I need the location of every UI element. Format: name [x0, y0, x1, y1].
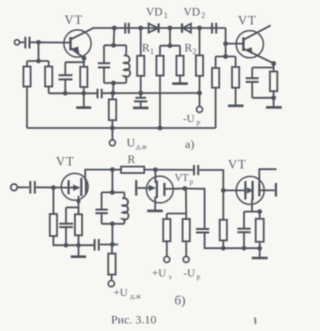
capacitor VTp source bypass: [196, 229, 260, 248]
label VT (VT2): [238, 14, 257, 28]
wire bottom bus Udzh (circuit a): [27, 127, 216, 129]
diode VD1: [149, 23, 159, 32]
terminal bar output (b, right): [275, 183, 277, 197]
terminal +Uz: [164, 256, 170, 262]
coupling capacitor input (circuit b): [30, 181, 35, 194]
ground (under VD divider): [172, 82, 188, 85]
terminal -Up (circuit a): [197, 93, 203, 112]
wire source VTp bypass branch: [185, 189, 205, 229]
label +Udzh: [114, 287, 142, 301]
node base divider tap (circuit a): [27, 40, 49, 63]
label a): [185, 137, 194, 151]
svg-text:2: 2: [193, 47, 197, 56]
wire top rail to gate VT right (circuit b): [199, 170, 223, 190]
capacitor emitter bypass (circuit a): [59, 75, 73, 93]
label +Uz: [152, 268, 172, 282]
svg-text:р: р: [197, 118, 201, 127]
capacitor series top rail 2 (circuit a): [212, 23, 216, 34]
wire drain VT left to top rail (circuit b): [85, 170, 121, 181]
label VT (b, left): [56, 155, 75, 169]
wire emitter branch (circuit a): [65, 58, 84, 75]
diode VD2: [182, 23, 191, 32]
transistor VT field-effect right (circuit b): [223, 176, 274, 204]
node Udzh tap on bottom bus: [110, 126, 162, 131]
svg-text:Рис. 3.10: Рис. 3.10: [111, 313, 156, 327]
ground (source network b left): [71, 245, 86, 257]
terminal Udzh (circuit a): [109, 128, 115, 146]
label VD2: [184, 7, 206, 21]
resistor R2: [196, 26, 203, 93]
wire VT2 emitter network bottom: [252, 95, 276, 100]
svg-text:б): б): [175, 293, 186, 308]
svg-text:1: 1: [164, 11, 168, 20]
label -Up (circuit b): [184, 268, 201, 282]
wire collector VT1 to top rail: [93, 27, 226, 29]
svg-text:VT: VT: [238, 14, 257, 28]
ground (VT2 emitter): [266, 98, 282, 108]
capacitor series in +Udzh rail (circuit b): [95, 239, 99, 251]
wire input to base of VT1: [31, 41, 71, 43]
resistor emitter VT1: [80, 58, 87, 93]
terminal -Up (circuit b): [183, 256, 189, 262]
svg-text:+U: +U: [152, 268, 166, 280]
node drain VTp on top rail: [153, 167, 158, 183]
capacitor series top rail (circuit b): [194, 165, 198, 175]
label R2: [185, 43, 197, 57]
node collector VT1 / tank tap top: [112, 26, 117, 46]
node emitter cap junction: [63, 91, 68, 96]
svg-text:а): а): [185, 137, 194, 151]
capacitor series top rail 1 (circuit a): [125, 23, 129, 34]
resistor gate bias (b, left): [50, 188, 95, 246]
svg-text:VT: VT: [175, 173, 190, 184]
svg-text:VT: VT: [228, 158, 247, 172]
ground (VT2 bias): [228, 105, 244, 108]
wire top rail after R (circuit b): [144, 169, 193, 171]
resistor VT2 bias left: [212, 57, 219, 129]
node gate VT right (circuit b): [221, 188, 226, 193]
resistor source (b, left): [75, 214, 82, 247]
coupling capacitor C1 (input, circuit a): [25, 37, 29, 49]
input terminal (circuit b): [11, 184, 29, 191]
node R1 bottom: [138, 91, 143, 96]
resistor to +Uz (circuit b): [163, 214, 170, 257]
node tank top (circuit a): [104, 43, 126, 48]
wire divider under VD junction: [160, 45, 180, 47]
ground (source network b right): [252, 248, 268, 258]
label VTp (circuit b): [175, 173, 194, 186]
node tank top (circuit b): [102, 190, 125, 195]
resistor R1: [137, 28, 144, 93]
label Ris. 3.10: [111, 313, 156, 327]
resistor VT2 emitter: [270, 72, 277, 98]
resistor +Udzh feed (circuit b): [108, 244, 115, 280]
svg-text:-U: -U: [183, 113, 195, 125]
svg-text:VD: VD: [146, 7, 163, 19]
label Udzh (circuit a): [127, 136, 148, 152]
resistor to -Up (circuit b): [183, 214, 190, 257]
label VT (b, right): [228, 158, 247, 172]
wire VT2 emitter network top: [252, 64, 273, 78]
resistor base divider upper-left (circuit a): [23, 61, 30, 128]
resistor divider right (under VD junction): [176, 46, 183, 83]
label R (circuit b): [128, 154, 136, 166]
svg-text:VT: VT: [65, 13, 84, 27]
wire top rail corner to VT2 base: [226, 28, 244, 57]
inductor tank (circuit a): [124, 45, 130, 83]
resistor Udzh feed (circuit a): [109, 93, 116, 128]
capacitor bypass to ground under R1: [134, 93, 147, 107]
node gate VT left (circuit b): [51, 185, 56, 190]
svg-text:д.ж: д.ж: [136, 142, 148, 151]
inductor tank (circuit b): [122, 192, 128, 223]
wire source VTp to bias divider: [167, 189, 186, 214]
capacitor source bypass (b, left): [59, 224, 73, 246]
svg-text:R: R: [128, 154, 136, 166]
node VT2 base tap: [223, 41, 228, 59]
node emitter resistor junction / ground tap: [82, 91, 87, 96]
transistor VTp field-effect middle (circuit b): [136, 176, 173, 203]
wire source network top (b, right): [244, 199, 262, 214]
transistor VT field-effect left (circuit b): [61, 173, 88, 200]
svg-text:р: р: [190, 178, 194, 186]
capacitor tank (circuit a): [98, 45, 110, 83]
capacitor tank (circuit b): [95, 192, 107, 223]
ground (VTp substrate): [147, 197, 163, 211]
svg-text:U: U: [127, 136, 136, 150]
wire +Udzh rail right part (circuit b): [100, 242, 118, 247]
resistor VT2 bias right: [232, 57, 239, 105]
node tank tap top (circuit b): [110, 167, 115, 192]
svg-text:-U: -U: [184, 268, 196, 280]
svg-text:д.ж: д.ж: [130, 292, 142, 301]
node source cap junction (b, left): [64, 243, 69, 248]
node emitter VT2: [271, 61, 276, 66]
label R1: [142, 43, 154, 57]
svg-text:+U: +U: [114, 287, 128, 299]
page mark bottom right: [254, 318, 256, 325]
wire -Up rail (circuit a): [49, 92, 200, 94]
transistor VT1: [64, 28, 94, 58]
svg-text:R: R: [185, 43, 193, 55]
svg-text:VD: VD: [184, 7, 201, 19]
capacitor source bypass (b, right): [237, 212, 250, 251]
capacitor VT2 emitter bypass: [246, 78, 259, 98]
label b): [175, 293, 186, 308]
transistor VT2: [236, 25, 273, 63]
resistor base divider right (circuit a): [45, 61, 52, 93]
svg-text:1: 1: [150, 47, 154, 56]
wire tank bottom (circuit a): [104, 82, 126, 84]
wire input to gate VT (b, left): [36, 186, 68, 188]
svg-text:р: р: [197, 272, 201, 281]
node source VTp: [173, 186, 187, 191]
node R1 top: [138, 26, 143, 31]
resistor source (b, right): [256, 212, 264, 251]
resistor divider left (under VD junction): [156, 46, 163, 128]
ground (emitter network, circuit a): [76, 93, 91, 107]
ground (under R1 bypass): [133, 107, 149, 110]
label VT (VT1): [65, 13, 84, 27]
svg-text:2: 2: [201, 11, 205, 20]
node emitter VT1: [82, 56, 87, 61]
svg-text:R: R: [142, 43, 150, 55]
resistor R (circuit b): [121, 167, 144, 173]
capacitor series in -Up rail (circuit a): [98, 89, 102, 99]
wire drain VT right (circuit b): [259, 169, 276, 183]
label VD1: [146, 7, 168, 21]
input terminal (circuit a): [14, 40, 24, 45]
node R2 bottom / -Up tap: [197, 91, 202, 96]
wire source branch (b, left): [66, 196, 81, 224]
svg-text:VT: VT: [56, 155, 75, 169]
svg-text:з: з: [169, 272, 172, 281]
label -Up (circuit a): [183, 113, 201, 127]
resistor gate bias (b, right): [220, 190, 227, 250]
wire VT2 bias divider: [216, 56, 236, 58]
node VD1-VD2 junction: [168, 26, 173, 48]
terminal +Udzh (circuit b): [108, 281, 114, 287]
node tank bottom: [111, 81, 116, 96]
wire tank bottom (circuit b): [102, 221, 125, 244]
